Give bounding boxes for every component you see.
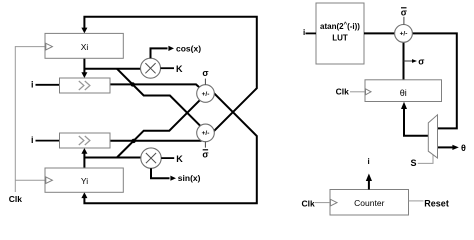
svg-text:Counter: Counter bbox=[354, 198, 384, 208]
svg-text:σ: σ bbox=[418, 56, 424, 66]
svg-text:+/-: +/- bbox=[400, 31, 408, 38]
svg-text:Reset: Reset bbox=[424, 199, 449, 209]
svg-text:Clk: Clk bbox=[336, 87, 350, 97]
svg-text:i: i bbox=[31, 135, 34, 145]
svg-text:LUT: LUT bbox=[332, 34, 348, 43]
svg-text:θ: θ bbox=[461, 143, 466, 153]
svg-text:+/-: +/- bbox=[202, 91, 210, 98]
svg-text:Yi: Yi bbox=[81, 176, 88, 186]
svg-text:i: i bbox=[368, 157, 370, 166]
svg-text:i: i bbox=[31, 80, 34, 90]
svg-text:cos(x): cos(x) bbox=[176, 43, 201, 53]
svg-text:σ: σ bbox=[202, 68, 208, 78]
svg-text:i: i bbox=[303, 28, 305, 37]
svg-text:+/-: +/- bbox=[202, 130, 210, 137]
svg-text:K: K bbox=[176, 64, 183, 74]
svg-text:Xi: Xi bbox=[81, 42, 89, 52]
svg-text:Clk: Clk bbox=[9, 194, 22, 204]
svg-text:σ: σ bbox=[202, 149, 208, 159]
svg-text:Clk: Clk bbox=[302, 198, 316, 208]
svg-text:S: S bbox=[411, 158, 417, 168]
svg-text:atan(2^(-i)): atan(2^(-i)) bbox=[320, 22, 360, 31]
svg-text:σ: σ bbox=[401, 8, 407, 18]
svg-text:sin(x): sin(x) bbox=[178, 173, 201, 183]
svg-text:θi: θi bbox=[400, 88, 407, 98]
svg-text:K: K bbox=[176, 154, 183, 164]
